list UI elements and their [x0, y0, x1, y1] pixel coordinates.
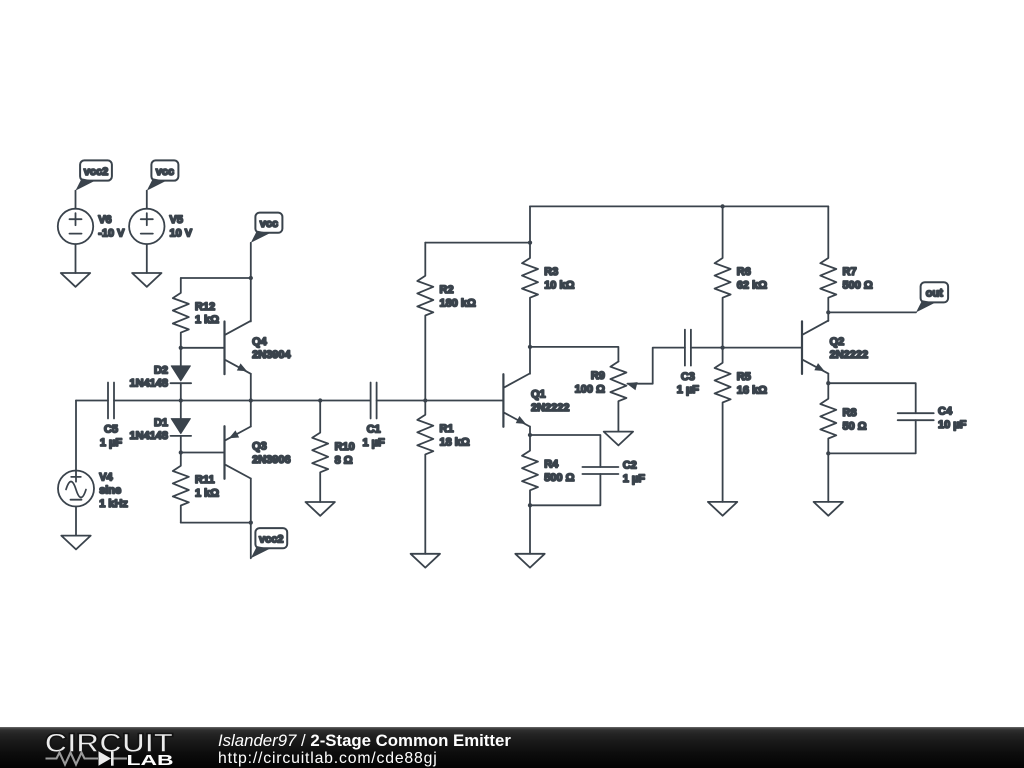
- resistor R5: [715, 348, 731, 502]
- resistor R2 label: [440, 284, 477, 309]
- resistor R4: [522, 435, 538, 505]
- ground (R4): [515, 554, 544, 568]
- wire: node Q to ground: [827, 453, 829, 502]
- svg-text:R8: R8: [843, 407, 857, 419]
- resistor R1 label: [440, 423, 470, 448]
- svg-text:C2: C2: [623, 460, 637, 472]
- wire: Q2 emitter down to node P: [827, 374, 829, 384]
- wire: Q1 emitter down to node L: [529, 427, 531, 436]
- node B (R12 / D2 / Q4 base junction): [179, 346, 183, 350]
- wire: node N to Q2 base: [723, 347, 802, 349]
- ground (V6): [61, 273, 90, 287]
- transistor Q2 (2N2222) label: [830, 336, 869, 361]
- wire: V4 corner to C5 left plate: [76, 400, 108, 402]
- svg-text:10 V: 10 V: [170, 227, 193, 239]
- capacitor C4: [898, 413, 934, 420]
- svg-text:Q3: Q3: [252, 441, 267, 453]
- wire: C2 bottom plate to node M: [530, 474, 600, 505]
- capacitor C4 label: [938, 406, 967, 431]
- svg-text:180 kΩ: 180 kΩ: [440, 297, 477, 309]
- svg-text:1 kΩ: 1 kΩ: [195, 314, 219, 326]
- svg-text:R4: R4: [544, 459, 559, 471]
- capacitor C3: [685, 330, 691, 366]
- node J (top rail / R6 tap): [720, 204, 724, 208]
- resistor R2: [417, 243, 433, 401]
- wire: V6 minus terminal to ground: [75, 244, 77, 273]
- resistor R12: [173, 278, 189, 348]
- svg-text:1 µF: 1 µF: [677, 384, 700, 396]
- wire: vcc flag to V5 plus terminal: [146, 191, 148, 209]
- svg-text:C3: C3: [681, 371, 695, 383]
- node O (R7 / Q2 collector / out junction): [826, 310, 830, 314]
- node I (R2 / R3 junction): [528, 240, 532, 244]
- wire: node D to D1 anode: [180, 401, 182, 419]
- node H (R11 / Q3 collector / vcc2 junction): [249, 520, 253, 524]
- capacitor C1: [371, 383, 377, 419]
- rheostat R9 wiper arrow: [626, 382, 637, 390]
- svg-text:C4: C4: [938, 406, 953, 418]
- power flag vcc (Q4 collector): [251, 213, 283, 243]
- wire: node H down to vcc2 flag: [250, 523, 252, 559]
- node Q (R8 / C4 bottom junction): [826, 451, 830, 455]
- wire: V4 minus terminal to ground: [75, 507, 77, 536]
- wire: node G to Q3 base: [181, 452, 225, 454]
- svg-text:2N2222: 2N2222: [830, 349, 869, 361]
- voltage source V5 label: [170, 214, 193, 239]
- footer title text: [218, 732, 511, 749]
- wire: R2 top to node I: [425, 242, 530, 244]
- svg-text:sine: sine: [99, 485, 121, 497]
- wire: top rail: [530, 205, 828, 207]
- svg-text:out: out: [926, 288, 943, 300]
- node L (Q1 emitter / R4 / C2 junction): [528, 433, 532, 437]
- svg-text:vcc2: vcc2: [259, 534, 283, 546]
- node P (Q2 emitter / R8 / C4 junction): [826, 381, 830, 385]
- voltage source V4 (sine) label: [99, 471, 128, 510]
- wire: D1 cathode to node G: [180, 436, 182, 453]
- diode D1 (1N4148) label: [129, 417, 168, 442]
- voltage source V4 (sine): [58, 471, 94, 507]
- node G (D1 / R11 / Q3 base junction): [179, 450, 183, 454]
- rheostat R9 label: [575, 370, 605, 395]
- power flag vcc2 (V6): [76, 160, 112, 190]
- wire: vcc2 flag to V6 plus terminal: [75, 191, 77, 209]
- resistor R1: [417, 401, 433, 554]
- svg-text:2N2222: 2N2222: [531, 402, 570, 414]
- output flag out: [916, 282, 948, 312]
- svg-text:8 Ω: 8 Ω: [335, 455, 353, 467]
- transistor Q4 (2N3904): [225, 321, 251, 374]
- ground (R5): [708, 502, 737, 516]
- resistor R10: [312, 401, 328, 503]
- wire: C3 right plate to node N: [691, 347, 723, 349]
- logo resistor-diode glyph: [46, 753, 99, 765]
- resistor R4 label: [544, 459, 574, 484]
- svg-text:R7: R7: [843, 266, 857, 278]
- svg-text:C1: C1: [367, 424, 381, 436]
- wire: Q2 collector to node O: [827, 312, 829, 321]
- capacitor C1 label: [362, 424, 385, 449]
- svg-text:R2: R2: [440, 284, 454, 296]
- svg-text:1N4148: 1N4148: [129, 430, 168, 442]
- capacitor C5: [108, 383, 114, 419]
- svg-text:1N4148: 1N4148: [129, 378, 168, 390]
- node F (R2 / R1 / Q1 base junction): [423, 398, 427, 402]
- svg-text:1 µF: 1 µF: [100, 437, 123, 449]
- svg-text:500 Ω: 500 Ω: [544, 472, 574, 484]
- svg-text:vcc: vcc: [156, 166, 174, 178]
- svg-text:R1: R1: [440, 423, 454, 435]
- svg-text:D1: D1: [154, 417, 168, 429]
- footer bar: [0, 727, 1024, 768]
- wire: node A to R12 top corner: [181, 277, 251, 279]
- svg-text:18 kΩ: 18 kΩ: [440, 436, 470, 448]
- svg-text:1 kHz: 1 kHz: [99, 498, 128, 510]
- capacitor C5 label: [100, 424, 123, 449]
- wire: R9 wiper to C3 left plate: [628, 348, 685, 384]
- wire: Q4 collector to node A: [250, 278, 252, 322]
- wire: Q1 collector to node K: [529, 347, 531, 374]
- diode D1 (1N4148): [171, 419, 192, 436]
- voltage source V6 label: [98, 214, 125, 239]
- wire: main row to V4 plus terminal: [75, 401, 77, 482]
- svg-text:D2: D2: [154, 365, 168, 377]
- power flag vcc2 (Q3 collector): [251, 528, 287, 558]
- wire: Q4 emitter down to main row node C: [250, 374, 252, 401]
- voltage source V5: [129, 209, 164, 244]
- svg-text:R5: R5: [737, 371, 751, 383]
- wire: node B to D2 anode: [180, 348, 182, 366]
- wire: D2 cathode to main row node D: [180, 383, 182, 400]
- ground (R8): [814, 502, 843, 516]
- svg-text:1 µF: 1 µF: [623, 473, 646, 485]
- ground (V4): [61, 536, 90, 550]
- wire: node L to C2 top plate: [530, 435, 600, 467]
- node E (R10 tap): [318, 398, 322, 402]
- svg-text:R10: R10: [335, 441, 355, 453]
- resistor R7: [820, 206, 836, 312]
- wire: node O to out flag: [828, 311, 916, 313]
- resistor R11: [173, 453, 189, 523]
- wire: node E to C1 left plate: [320, 400, 370, 402]
- transistor Q4 (2N3904) label: [252, 336, 291, 361]
- svg-text:50 Ω: 50 Ω: [843, 421, 867, 433]
- resistor R8 label: [843, 407, 867, 432]
- capacitor C2: [582, 467, 618, 474]
- svg-text:2N3904: 2N3904: [252, 349, 291, 361]
- ground (R1): [411, 554, 440, 568]
- diode D2 (1N4148) label: [129, 365, 168, 390]
- power flag vcc (V5): [147, 160, 179, 190]
- diode D2 (1N4148): [171, 366, 192, 383]
- svg-text:Q1: Q1: [531, 389, 546, 401]
- ground (R10): [306, 502, 335, 516]
- footer url: [218, 750, 438, 768]
- svg-text:R9: R9: [591, 370, 605, 382]
- node D (C5 / D2 / D1 junction): [179, 398, 183, 402]
- ground (R9): [604, 432, 633, 446]
- resistor R3: [522, 206, 538, 347]
- svg-text:Q2: Q2: [830, 336, 845, 348]
- node K (R3 / Q1 collector / R9 wire junction): [528, 345, 532, 349]
- svg-text:R6: R6: [737, 266, 751, 278]
- svg-text:1 kΩ: 1 kΩ: [195, 487, 219, 499]
- resistor R6 label: [737, 266, 767, 291]
- wire: C4 bottom plate to node Q: [828, 420, 915, 453]
- svg-text:Q4: Q4: [252, 336, 268, 348]
- svg-text:16 kΩ: 16 kΩ: [737, 384, 767, 396]
- svg-text:-10 V: -10 V: [98, 227, 125, 239]
- svg-text:C5: C5: [104, 424, 118, 436]
- node A (vcc / R12 / Q4 collector junction): [249, 276, 253, 280]
- wire: vcc flag down to node A: [250, 243, 252, 278]
- wire: node D to node C: [181, 400, 251, 402]
- svg-text:10 µF: 10 µF: [938, 419, 967, 431]
- resistor R10 label: [335, 441, 355, 466]
- node C (Q4 emitter / Q3 emitter junction): [249, 398, 253, 402]
- svg-text:500 Ω: 500 Ω: [843, 280, 873, 292]
- svg-text:R3: R3: [544, 266, 558, 278]
- svg-text:10 kΩ: 10 kΩ: [544, 280, 574, 292]
- transistor Q3 (2N3906): [225, 426, 251, 479]
- wire: C5 right plate to diode junction node: [114, 400, 181, 402]
- transistor Q3 (2N3906) label: [252, 441, 291, 466]
- svg-text:V5: V5: [170, 214, 183, 226]
- wire: Q3 collector down to node H: [250, 479, 252, 523]
- wire: V5 minus terminal to ground: [146, 244, 148, 273]
- resistor R11 label: [195, 474, 219, 499]
- resistor R6: [715, 206, 731, 347]
- wire: node C down to Q3 emitter: [250, 401, 252, 427]
- svg-text:V6: V6: [98, 214, 111, 226]
- wire: R11 bottom corner to node H: [181, 522, 251, 524]
- node N (C3 / R6 / R5 / Q2 base junction): [720, 345, 724, 349]
- resistor R8: [820, 383, 836, 453]
- transistor Q1 (2N2222) label: [531, 389, 570, 414]
- rheostat R9: [610, 362, 626, 432]
- svg-text:R12: R12: [195, 301, 215, 313]
- resistor R5 label: [737, 371, 767, 396]
- transistor Q2 (2N2222): [802, 321, 828, 374]
- svg-text:R11: R11: [195, 474, 215, 486]
- transistor Q1 (2N2222): [503, 374, 529, 427]
- capacitor C3 label: [677, 371, 700, 396]
- wire: node F to Q1 base: [425, 400, 503, 402]
- wire: node K to R9 top: [530, 347, 618, 362]
- wire: node C to R10 node E: [251, 400, 320, 402]
- resistor R12 label: [195, 301, 219, 326]
- svg-text:vcc2: vcc2: [84, 166, 108, 178]
- ground (V5): [132, 273, 161, 287]
- wire: node B to Q4 base: [181, 347, 225, 349]
- svg-text:2N3906: 2N3906: [252, 454, 291, 466]
- resistor R3 label: [544, 266, 574, 291]
- svg-text:V4: V4: [99, 471, 113, 483]
- wire: node M to ground: [529, 505, 531, 554]
- svg-text:100 Ω: 100 Ω: [575, 383, 605, 395]
- node M (R4 / C2 bottom junction): [528, 503, 532, 507]
- voltage source V6: [58, 209, 93, 244]
- capacitor C2 label: [623, 460, 646, 485]
- resistor R7 label: [843, 266, 873, 291]
- wire: C1 right plate to node F: [377, 400, 426, 402]
- wire: node P to C4 top plate: [828, 383, 915, 413]
- svg-text:1 µF: 1 µF: [362, 437, 385, 449]
- svg-text:62 kΩ: 62 kΩ: [737, 280, 767, 292]
- svg-text:vcc: vcc: [260, 218, 278, 230]
